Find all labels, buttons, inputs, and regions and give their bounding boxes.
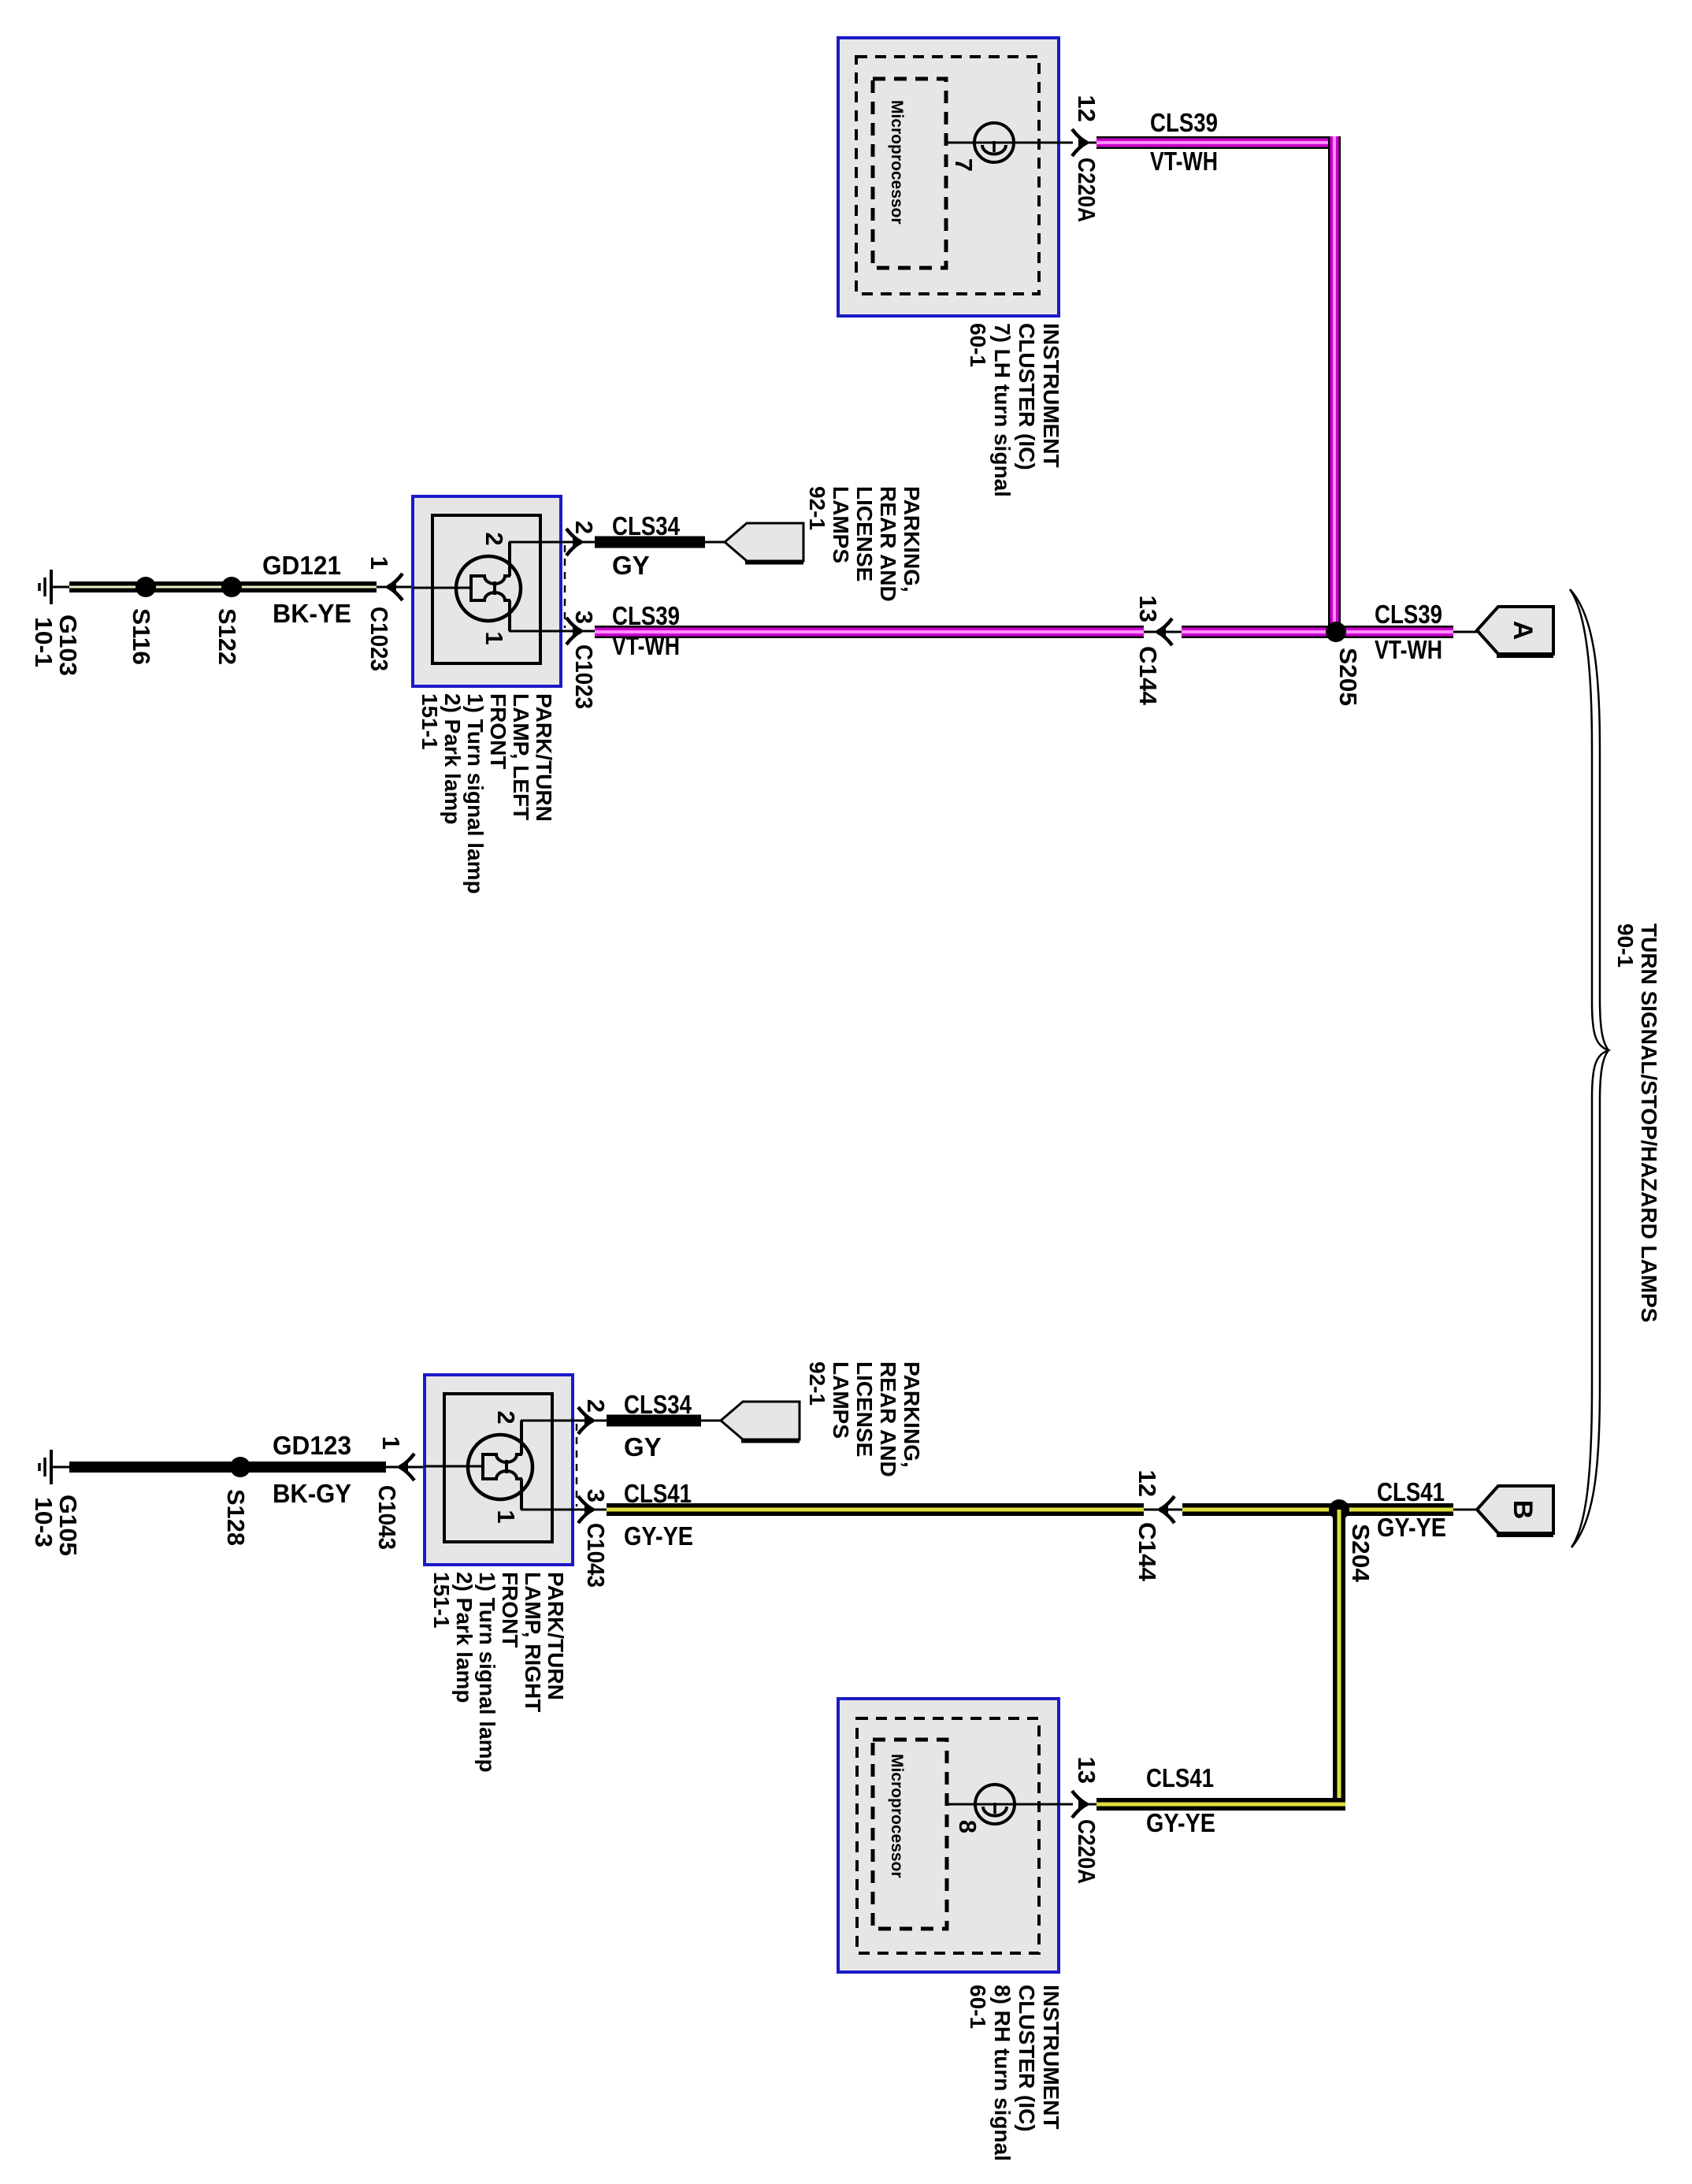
wire CLS39 VT-WH C144 to A (1182, 626, 1453, 638)
svg-text:VT-WH: VT-WH (1375, 635, 1442, 664)
svg-text:GD121: GD121 (262, 551, 341, 580)
connector C1043 pin 2 (578, 1399, 610, 1434)
IC lamp indicator pin 8 (947, 1785, 1073, 1833)
svg-text:CLS41: CLS41 (1146, 1763, 1214, 1792)
svg-text:S122: S122 (213, 608, 241, 665)
svg-text:CLS34: CLS34 (612, 511, 681, 540)
svg-text:2: 2 (492, 1410, 520, 1424)
svg-text:CLS39: CLS39 (612, 601, 680, 630)
wire CLS41 GY-YE from IC pin 13 (1096, 1763, 1345, 1837)
svg-text:C144: C144 (1134, 646, 1162, 706)
inline connector C144 pin 13 (1134, 596, 1182, 706)
svg-text:7: 7 (950, 158, 978, 172)
wire CLS39 VT-WH lamp to C144 (595, 601, 1144, 660)
svg-text:CLS39: CLS39 (1150, 108, 1218, 137)
svg-text:1: 1 (481, 631, 508, 644)
svg-text:3: 3 (582, 1489, 610, 1502)
splice S128 (222, 1457, 250, 1546)
svg-text:GY-YE: GY-YE (624, 1521, 693, 1551)
svg-text:1: 1 (377, 1436, 405, 1450)
svg-text:Microprocessor: Microprocessor (888, 100, 906, 225)
wire CLS39 vertical drop to S205 (1328, 136, 1341, 632)
svg-text:CLS41: CLS41 (1377, 1477, 1445, 1506)
svg-text:GY: GY (624, 1432, 662, 1462)
svg-text:13: 13 (1073, 1757, 1100, 1784)
svg-text:S128: S128 (222, 1489, 250, 1546)
svg-text:12: 12 (1073, 95, 1100, 122)
off-page connector B (1453, 1486, 1553, 1535)
lamp box PARK/TURN LAMP LEFT FRONT (413, 496, 561, 686)
connector C1043 pin 3 (578, 1489, 610, 1588)
svg-text:S205: S205 (1334, 648, 1362, 706)
lamp pin 1 lead (481, 631, 595, 645)
svg-text:Microprocessor: Microprocessor (888, 1754, 906, 1878)
wire label CLS39 VT-WH at A (1375, 600, 1442, 664)
svg-text:10-3: 10-3 (30, 1497, 58, 1547)
svg-text:C1043: C1043 (373, 1485, 401, 1550)
wire CLS41 GY-YE C144 to B (1182, 1503, 1453, 1516)
svg-text:G103: G103 (54, 615, 82, 676)
wire CLS39 VT-WH from IC pin 12 (1096, 108, 1341, 176)
wire CLS41 vertical from S204 down (1333, 1510, 1345, 1811)
svg-text:VT-WH: VT-WH (1150, 147, 1218, 176)
svg-text:12: 12 (1134, 1470, 1161, 1497)
svg-text:1: 1 (365, 556, 393, 570)
svg-text:13: 13 (1134, 596, 1162, 622)
connector C1023 pin 1 (365, 556, 413, 671)
connector C1023 dashed link (564, 545, 566, 628)
svg-text:G105: G105 (54, 1495, 82, 1556)
svg-text:C220A: C220A (1073, 1819, 1100, 1884)
svg-text:BK-GY: BK-GY (273, 1479, 351, 1508)
connector C220A pin 12 (1072, 95, 1100, 222)
svg-text:C1043: C1043 (582, 1523, 610, 1588)
wire GD121 BK-YE ground segment (69, 581, 377, 592)
bulb dual filament right front (425, 1421, 532, 1510)
splice S205 (1326, 622, 1362, 706)
ground G105 (39, 1450, 71, 1484)
svg-text:B: B (1508, 1500, 1538, 1520)
svg-text:2: 2 (481, 532, 508, 545)
IC lamp indicator pin 7 (946, 123, 1073, 172)
instrument cluster box (bottom) (838, 1699, 1059, 1972)
instrument cluster box (top) (838, 38, 1059, 316)
svg-text:3: 3 (570, 611, 598, 624)
svg-text:A: A (1508, 621, 1538, 641)
svg-text:CLS34: CLS34 (624, 1390, 692, 1419)
wire GD123 BK-GY ground segment (69, 1462, 386, 1473)
svg-text:GD123: GD123 (273, 1431, 351, 1460)
svg-text:C1023: C1023 (365, 607, 393, 671)
svg-text:GY-YE: GY-YE (1377, 1513, 1446, 1542)
svg-text:2: 2 (582, 1399, 610, 1413)
wire label GD121 BK-YE (262, 551, 351, 628)
connector C1023 pin 3 (566, 611, 598, 709)
wire CLS34 GY top (595, 511, 725, 580)
splice S204 (1329, 1499, 1375, 1583)
wire CLS41 GY-YE lamp to C144 (607, 1479, 1144, 1551)
connector C220A pin 13 (1072, 1757, 1100, 1884)
brace TURN SIGNAL/STOP/HAZARD LAMPS (1570, 589, 1609, 1547)
wire label GD123 BK-GY (273, 1431, 351, 1508)
wire CLS34 GY bottom (607, 1390, 721, 1462)
bulb dual filament left front (413, 542, 521, 631)
svg-text:C1023: C1023 (570, 644, 598, 709)
lamp pin 2 lead (481, 532, 595, 545)
svg-text:S116: S116 (128, 608, 155, 665)
splice S122 (213, 577, 242, 665)
connector C1043 dashed link (576, 1424, 578, 1506)
svg-text:2: 2 (570, 521, 598, 534)
svg-text:8: 8 (954, 1820, 981, 1833)
lamp pin 1 lead (bottom box) (492, 1510, 607, 1524)
svg-text:BK-YE: BK-YE (273, 599, 351, 628)
svg-text:S204: S204 (1347, 1524, 1375, 1583)
ground G103 (39, 570, 71, 604)
splice S116 (128, 577, 156, 665)
svg-text:CLS41: CLS41 (624, 1479, 692, 1508)
ground label G103 10-1 (30, 615, 82, 676)
ground label G105 10-3 (30, 1495, 82, 1556)
connector C1023 pin 2 (566, 521, 598, 555)
lamp pin 2 lead (bottom box) (492, 1410, 607, 1424)
arrow to PARKING, REAR AND LICENSE LAMPS 92-1 (top) (725, 523, 803, 563)
svg-text:GY-YE: GY-YE (1146, 1808, 1215, 1837)
off-page connector A (1453, 607, 1553, 656)
svg-text:C220A: C220A (1073, 158, 1100, 222)
svg-text:GY: GY (612, 551, 650, 580)
inline connector C144 pin 12 (1134, 1470, 1182, 1582)
svg-text:CLS39: CLS39 (1375, 600, 1442, 629)
connector C1043 pin 1 (373, 1436, 425, 1550)
svg-text:10-1: 10-1 (30, 617, 58, 667)
wire label CLS41 GY-YE at B (1377, 1477, 1446, 1542)
svg-text:VT-WH: VT-WH (612, 631, 680, 660)
svg-text:C144: C144 (1134, 1522, 1161, 1582)
arrow to PARKING, REAR AND LICENSE LAMPS 92-1 (bottom) (721, 1402, 800, 1441)
svg-text:1: 1 (492, 1510, 520, 1523)
lamp box PARK/TURN LAMP RIGHT FRONT (425, 1375, 573, 1565)
